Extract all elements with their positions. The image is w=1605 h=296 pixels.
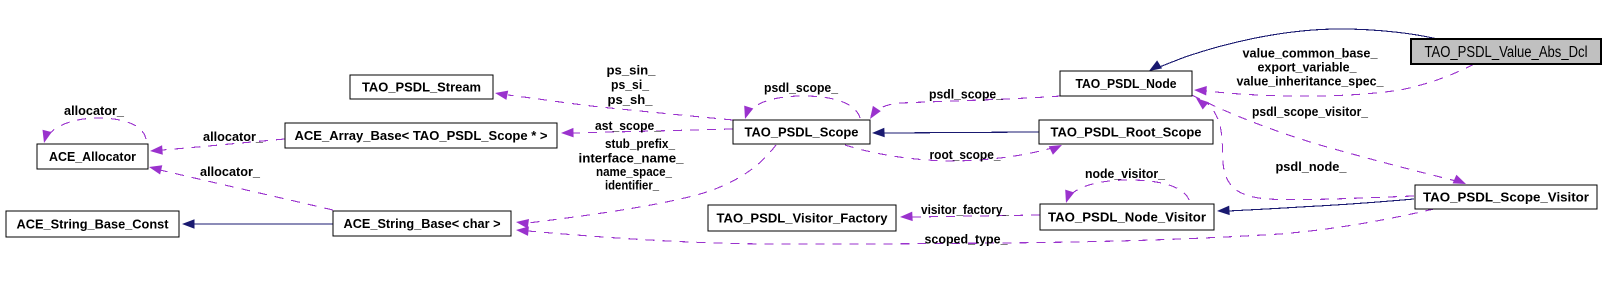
- label psdl_scope_ (self-loop): [764, 80, 839, 95]
- svg-text:TAO_PSDL_Value_Abs_Dcl: TAO_PSDL_Value_Abs_Dcl: [1425, 44, 1588, 61]
- svg-text:ps_sh_: ps_sh_: [608, 92, 654, 107]
- svg-text:identifier_: identifier_: [605, 178, 660, 193]
- svg-text:scoped_type_: scoped_type_: [925, 232, 1009, 247]
- edge root_scope_ from TAO_PSDL_Scope to TAO_PSDL_Root_Scope: [845, 145, 1062, 161]
- label value_inheritance_spec_: [1237, 74, 1385, 89]
- svg-text:TAO_PSDL_Stream: TAO_PSDL_Stream: [362, 80, 481, 95]
- edge psdl_scope_ self-loop on TAO_PSDL_Scope: [744, 96, 860, 119]
- svg-text:root_scope_: root_scope_: [930, 147, 1002, 162]
- edge ast_scope_ from TAO_PSDL_Scope to ACE_Array_Base: [561, 128, 733, 137]
- label name_space_: [596, 164, 673, 179]
- node TAO_PSDL_Node_Visitor: [1040, 204, 1214, 230]
- svg-text:TAO_PSDL_Node_Visitor: TAO_PSDL_Node_Visitor: [1048, 210, 1206, 225]
- svg-text:psdl_scope_: psdl_scope_: [929, 87, 1004, 102]
- svg-text:ACE_String_Base_Const: ACE_String_Base_Const: [17, 217, 170, 232]
- svg-text:ACE_String_Base< char >: ACE_String_Base< char >: [344, 216, 501, 231]
- node ACE_String_Base_Const: [6, 211, 179, 237]
- label psdl_scope_visitor_: [1252, 104, 1369, 119]
- edge allocator_ from ACE_Array_Base to ACE_Allocator: [150, 139, 285, 155]
- label identifier_: [605, 178, 660, 193]
- svg-text:ACE_Allocator: ACE_Allocator: [49, 149, 136, 164]
- edge scoped_type_ from TAO_PSDL_Scope_Visitor to ACE_String_Base: [516, 209, 1434, 244]
- svg-text:stub_prefix_: stub_prefix_: [605, 136, 676, 151]
- svg-text:TAO_PSDL_Root_Scope: TAO_PSDL_Root_Scope: [1051, 125, 1202, 140]
- label node_visitor_: [1085, 166, 1166, 181]
- node TAO_PSDL_Stream: [350, 75, 493, 99]
- label stub_prefix_: [605, 136, 676, 151]
- label value_common_base_: [1243, 46, 1379, 61]
- node ACE_Allocator: [37, 144, 148, 169]
- label allocator_ (string base): [200, 164, 261, 179]
- inheritance edge TAO_PSDL_Root_Scope to TAO_PSDL_Scope: [872, 128, 1039, 137]
- edge psdl_scope_ from TAO_PSDL_Node to TAO_PSDL_Scope: [870, 96, 1061, 119]
- node TAO_PSDL_Root_Scope: [1039, 120, 1213, 144]
- label psdl_node_: [1276, 159, 1348, 174]
- label allocator_ (self-loop): [64, 103, 125, 118]
- svg-text:ps_sin_: ps_sin_: [607, 63, 657, 78]
- node TAO_PSDL_Scope: [733, 120, 870, 144]
- node TAO_PSDL_Scope_Visitor: [1415, 185, 1597, 209]
- edge ps_sin_/ps_si_/ps_sh_ from TAO_PSDL_Scope to TAO_PSDL_Stream: [495, 91, 733, 120]
- svg-text:psdl_scope_visitor_: psdl_scope_visitor_: [1252, 104, 1369, 119]
- svg-text:TAO_PSDL_Node: TAO_PSDL_Node: [1076, 76, 1177, 91]
- inheritance edge TAO_PSDL_Value_Abs_Dcl to TAO_PSDL_Node: [1149, 29, 1445, 71]
- node ACE_Array_Base< TAO_PSDL_Scope * >: [285, 123, 557, 148]
- inheritance edge ACE_String_Base to ACE_String_Base_Const: [182, 219, 333, 229]
- svg-text:allocator_: allocator_: [203, 129, 264, 144]
- edge visitor_factory_ from TAO_PSDL_Node_Visitor to TAO_PSDL_Visitor_Factory: [900, 212, 1040, 222]
- edge value_common_base_/export_variable_/value_inheritance_spec_ from TAO_PSDL_Value_Abs_Dcl to TAO_PSDL_Node: [1194, 64, 1474, 96]
- edge node_visitor_ self-loop on TAO_PSDL_Node_Visitor: [1065, 180, 1189, 203]
- svg-text:node_visitor_: node_visitor_: [1085, 166, 1166, 181]
- svg-text:export_variable_: export_variable_: [1258, 60, 1358, 75]
- svg-text:ast_scope_: ast_scope_: [595, 118, 662, 133]
- edge psdl_scope_visitor_ from TAO_PSDL_Node to TAO_PSDL_Scope_Visitor: [1192, 95, 1466, 184]
- svg-text:TAO_PSDL_Visitor_Factory: TAO_PSDL_Visitor_Factory: [717, 211, 889, 226]
- node TAO_PSDL_Visitor_Factory: [708, 205, 896, 231]
- inheritance edge TAO_PSDL_Scope_Visitor to TAO_PSDL_Node_Visitor: [1217, 199, 1414, 215]
- svg-text:ACE_Array_Base< TAO_PSDL_Scope: ACE_Array_Base< TAO_PSDL_Scope * >: [295, 128, 548, 143]
- label interface_name_: [579, 151, 685, 166]
- svg-text:psdl_node_: psdl_node_: [1276, 159, 1348, 174]
- edge allocator_ self-loop on ACE_Allocator: [43, 118, 147, 143]
- svg-text:value_common_base_: value_common_base_: [1243, 46, 1379, 61]
- label ps_si_: [611, 77, 650, 92]
- label ps_sh_: [608, 92, 654, 107]
- node TAO_PSDL_Node: [1060, 71, 1192, 96]
- label export_variable_: [1258, 60, 1358, 75]
- edge stub_prefix_/interface_name_/name_space_/identifier_ from TAO_PSDL_Scope to ACE_String_Base: [516, 145, 776, 229]
- svg-text:ps_si_: ps_si_: [611, 77, 650, 92]
- label ps_sin_: [607, 63, 657, 78]
- svg-text:TAO_PSDL_Scope_Visitor: TAO_PSDL_Scope_Visitor: [1423, 190, 1589, 205]
- label visitor_factory_: [921, 202, 1010, 217]
- svg-text:TAO_PSDL_Scope: TAO_PSDL_Scope: [745, 125, 859, 140]
- edge allocator_ from ACE_String_Base to ACE_Allocator: [149, 165, 333, 210]
- label psdl_scope_ (node to scope): [929, 87, 1004, 102]
- svg-text:visitor_factory_: visitor_factory_: [921, 202, 1010, 217]
- svg-text:psdl_scope_: psdl_scope_: [764, 80, 839, 95]
- edge psdl_node_ from TAO_PSDL_Scope_Visitor to TAO_PSDL_Node: [1196, 98, 1414, 200]
- node TAO_PSDL_Value_Abs_Dcl (current): [1411, 39, 1601, 64]
- label scoped_type_: [925, 232, 1009, 247]
- svg-text:allocator_: allocator_: [64, 103, 125, 118]
- label allocator_ (array base): [203, 129, 264, 144]
- svg-text:allocator_: allocator_: [200, 164, 261, 179]
- label ast_scope_: [595, 118, 662, 133]
- label root_scope_: [930, 147, 1002, 162]
- svg-text:value_inheritance_spec_: value_inheritance_spec_: [1237, 74, 1385, 89]
- node ACE_String_Base< char >: [333, 211, 511, 236]
